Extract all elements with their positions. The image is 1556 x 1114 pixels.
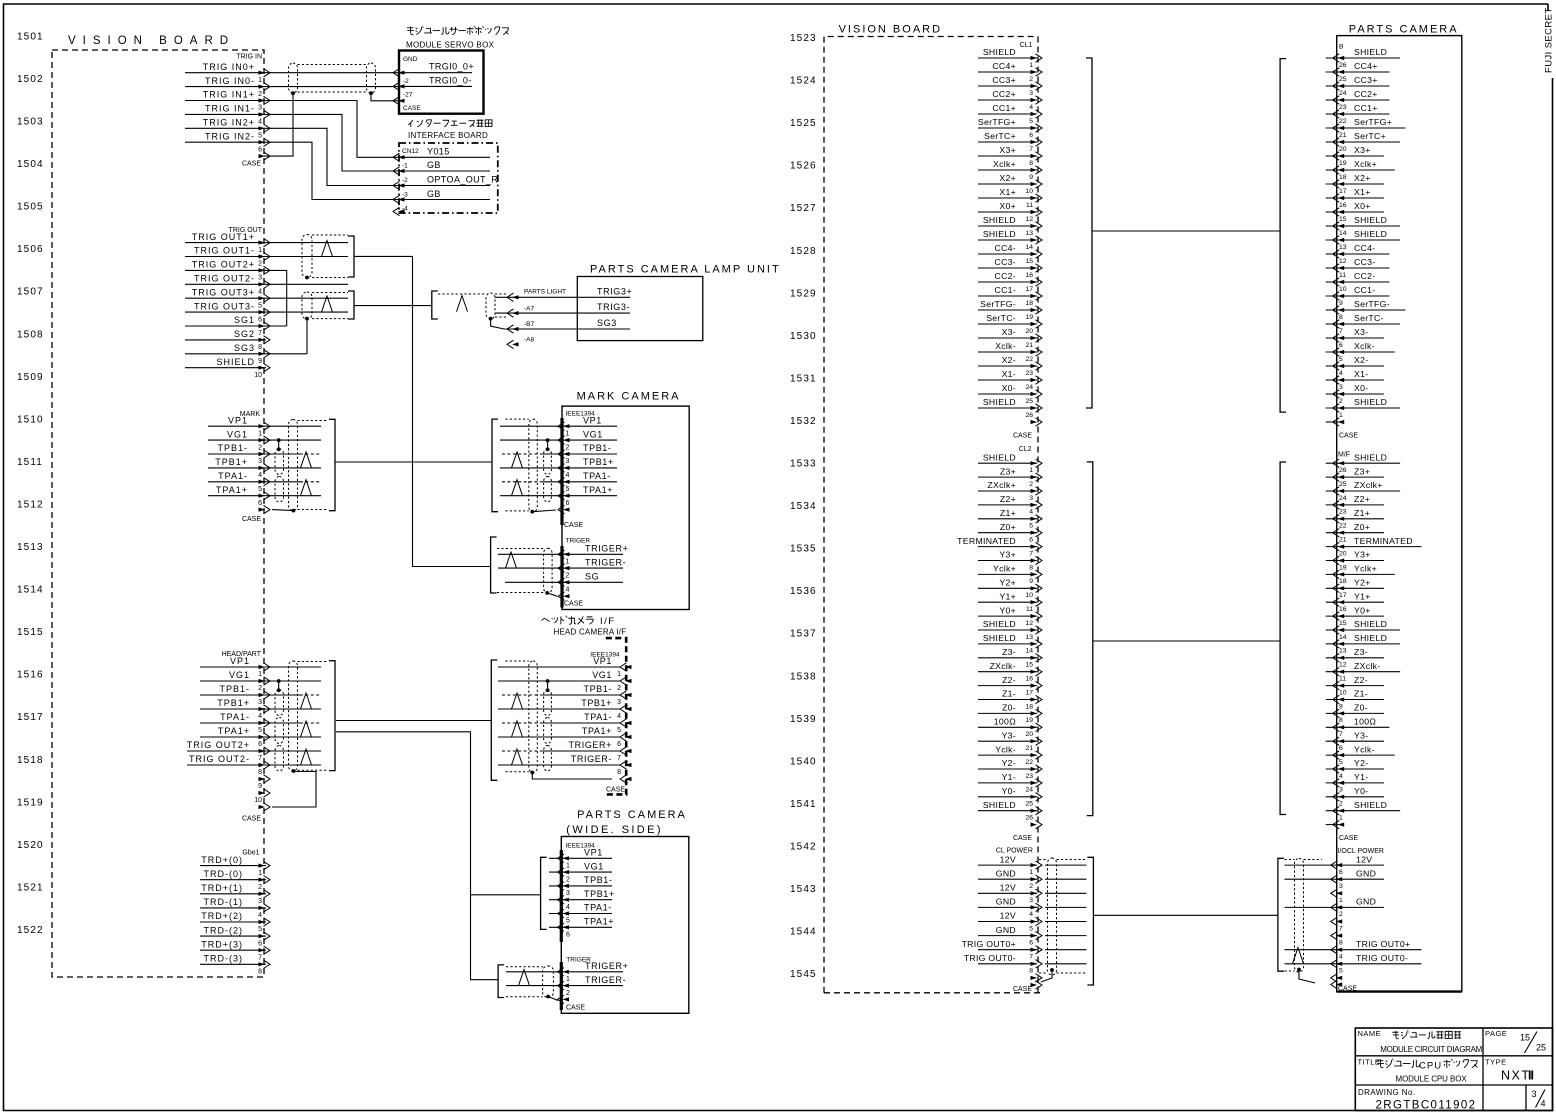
pulse symbol head camera pair (512, 693, 523, 709)
svg-text:CC1-: CC1- (995, 285, 1016, 295)
head camera pin 5 TPA1- (625, 721, 632, 725)
svg-text:23: 23 (1339, 509, 1347, 516)
svg-text:SHIELD: SHIELD (1354, 452, 1387, 462)
interface board pin -3 GB (398, 197, 405, 201)
svg-text:SerTFG-: SerTFG- (980, 299, 1016, 309)
svg-text:VP1: VP1 (584, 848, 603, 858)
wire TRIG IN case to cable shield (264, 93, 293, 156)
svg-text:8: 8 (258, 344, 262, 351)
parts camera wide box outline (561, 837, 689, 1014)
svg-text:SHIELD: SHIELD (983, 47, 1016, 57)
wide camera pin 1 VP1 (563, 856, 570, 860)
wide camera pin 6 TPA1+ (563, 925, 570, 929)
svg-text:13: 13 (1339, 648, 1347, 655)
svg-text:21: 21 (1025, 342, 1033, 349)
svg-text:OPTOA_OUT_R: OPTOA_OUT_R (427, 175, 498, 185)
svg-text:6: 6 (1029, 939, 1033, 946)
svg-text:1510: 1510 (17, 414, 44, 425)
cable capsule TRIG OUT3 pair (302, 292, 312, 319)
svg-text:22: 22 (1339, 523, 1347, 530)
svg-text:4: 4 (258, 289, 262, 296)
svg-text:TRD-(2): TRD-(2) (204, 925, 244, 935)
svg-text:PARTS CAMERA LAMP UNIT: PARTS CAMERA LAMP UNIT (590, 264, 781, 276)
svg-text:9: 9 (1029, 578, 1033, 585)
svg-text:TPB1+: TPB1+ (215, 457, 248, 467)
svg-text:SerTC+: SerTC+ (1354, 131, 1386, 141)
svg-text:CL2: CL2 (1019, 446, 1032, 453)
svg-text:5: 5 (258, 302, 262, 309)
parts camera power pin row 7 TRIG OUT0+ (1285, 949, 1422, 951)
svg-text:CC3-: CC3- (1354, 257, 1375, 267)
svg-text:1519: 1519 (17, 797, 44, 808)
title block outline (1355, 1028, 1552, 1111)
svg-text:TRGI0_0-: TRGI0_0- (429, 75, 472, 85)
svg-text:5: 5 (1029, 118, 1033, 125)
svg-text:TRD-(1): TRD-(1) (204, 897, 244, 907)
cable dashes CL POWER (1039, 859, 1048, 861)
svg-text:2: 2 (1029, 883, 1033, 890)
parts camera M/F pin 1 SHIELD (1326, 810, 1400, 812)
svg-text:Yclk-: Yclk- (995, 744, 1016, 754)
svg-text:1534: 1534 (790, 501, 817, 512)
svg-text:Z3-: Z3- (1354, 647, 1368, 657)
svg-text:-3: -3 (402, 191, 408, 198)
svg-text:100Ω: 100Ω (994, 717, 1016, 727)
svg-text:-27: -27 (403, 92, 413, 99)
svg-text:TRIGER-: TRIGER- (571, 754, 612, 764)
parts camera M/F blank pin 1 (1326, 824, 1339, 826)
head camera Japanese title (541, 618, 549, 621)
module servo box Japanese title (407, 26, 414, 34)
svg-text:1530: 1530 (790, 331, 817, 342)
parts camera M/F pin 21 Z0+ (1326, 532, 1384, 534)
wire CL POWER bundle to parts camera (1093, 914, 1278, 916)
svg-text:12V: 12V (1356, 854, 1372, 864)
parts camera M/F pin 12 Z3- (1326, 657, 1384, 659)
svg-text:1: 1 (258, 247, 262, 254)
svg-text:VG1: VG1 (227, 429, 248, 439)
wide camera connector bar TRIGER (560, 962, 563, 1010)
parts camera M/F pin 3 Y1- (1326, 782, 1384, 784)
svg-text:VISION BOARD: VISION BOARD (68, 35, 235, 47)
vision board (right) dashed outline (824, 37, 1038, 993)
wide camera trigger pin TRIGER- (563, 984, 570, 988)
svg-text:Y2-: Y2- (1354, 758, 1368, 768)
svg-text:CC2+: CC2+ (1354, 89, 1378, 99)
svg-text:7: 7 (258, 330, 262, 337)
svg-text:18: 18 (1025, 703, 1033, 710)
svg-text:1540: 1540 (790, 756, 817, 767)
svg-text:1533: 1533 (790, 459, 817, 470)
parts camera X pin 4 X2- (1326, 365, 1384, 367)
svg-text:PARTS CAMERA: PARTS CAMERA (577, 809, 687, 821)
svg-text:Z0-: Z0- (1354, 703, 1368, 713)
cable capsule MARK outer shield (289, 420, 298, 511)
parts camera M/F pin 8 Z0- (1326, 712, 1384, 714)
wire cable shield to servo box CASE (371, 93, 399, 101)
svg-text:SHIELD: SHIELD (1354, 800, 1387, 810)
svg-text:SerTFG+: SerTFG+ (1354, 117, 1392, 127)
svg-text:1: 1 (1339, 412, 1343, 419)
parts camera X pin 9 CC1- (1326, 295, 1390, 297)
svg-text:12V: 12V (1000, 854, 1016, 864)
svg-text:15: 15 (1339, 620, 1347, 627)
mark camera pin 5 TPA1- (563, 480, 570, 484)
svg-text:7: 7 (1339, 925, 1343, 932)
svg-text:6: 6 (1339, 342, 1343, 349)
svg-text:HEAD CAMERA I/F: HEAD CAMERA I/F (554, 628, 627, 637)
svg-text:1541: 1541 (790, 799, 817, 810)
svg-text:4: 4 (1029, 509, 1033, 516)
svg-text:TRD-(3): TRD-(3) (204, 954, 244, 964)
svg-text:INTERFACE BOARD: INTERFACE BOARD (408, 131, 488, 140)
parts camera X pin 7 SerTC- (1326, 323, 1400, 325)
svg-text:10: 10 (254, 797, 262, 804)
svg-text:GND: GND (1356, 868, 1376, 878)
parts camera X pin 8 SerTFG- (1326, 309, 1406, 311)
svg-text:1545: 1545 (790, 969, 817, 980)
svg-text:7: 7 (258, 755, 262, 762)
pulse symbol parts camera TRIG OUT0 (1293, 948, 1304, 964)
cable inner capsule mark camera TPB (544, 449, 552, 475)
junction dot cable shield right (369, 91, 373, 95)
svg-text:1: 1 (566, 430, 570, 437)
svg-text:7: 7 (1029, 146, 1033, 153)
parts camera power pin row 3 (1336, 891, 1343, 895)
cable bracket parts camera X (1280, 59, 1286, 413)
svg-text:TRIGER+: TRIGER+ (585, 961, 628, 971)
svg-text:GND: GND (996, 897, 1016, 907)
svg-text:2RGTBC011902: 2RGTBC011902 (1376, 1100, 1477, 1112)
pulse symbol mark camera TPA1 (512, 480, 523, 496)
svg-text:3: 3 (258, 105, 262, 112)
pulse symbol HEAD/PART pair (301, 749, 312, 765)
svg-text:17: 17 (1025, 689, 1033, 696)
mark camera box outline (562, 406, 689, 609)
svg-text:Z2-: Z2- (1354, 675, 1368, 685)
svg-text:1502: 1502 (17, 74, 44, 85)
svg-text:1505: 1505 (17, 202, 44, 213)
parts camera M/F pin 9 Z1- (1326, 699, 1384, 701)
svg-text:3: 3 (617, 699, 621, 706)
wire HEAD/PART case to cable shield (272, 772, 316, 808)
svg-text:SerTC+: SerTC+ (984, 131, 1016, 141)
svg-text:7: 7 (617, 755, 621, 762)
svg-text:-A7: -A7 (524, 305, 535, 312)
head camera pin 7 TRIGER+ (625, 749, 632, 753)
parts camera M/F pin 19 Y3+ (1326, 560, 1384, 562)
interface board pin CN12 Y015 (398, 155, 405, 159)
cable bracket CL2 (1087, 462, 1093, 816)
connector CL2 pin 26 blank (1031, 823, 1038, 827)
svg-text:14: 14 (1339, 634, 1347, 641)
svg-text:3: 3 (258, 898, 262, 905)
svg-text:GB: GB (427, 189, 441, 199)
svg-text:12: 12 (1025, 620, 1033, 627)
svg-text:24: 24 (1025, 787, 1033, 794)
svg-text:II: II (1528, 1069, 1533, 1083)
svg-text:1509: 1509 (17, 372, 44, 383)
svg-text:SHIELD: SHIELD (1354, 229, 1387, 239)
svg-text:16: 16 (1025, 272, 1033, 279)
cable dashes parts light (438, 293, 486, 295)
svg-text:-B7: -B7 (524, 321, 535, 328)
svg-text:25: 25 (1536, 1043, 1546, 1053)
svg-text:5: 5 (258, 727, 262, 734)
svg-text:Y2+: Y2+ (1354, 578, 1371, 588)
svg-text:10: 10 (1339, 689, 1347, 696)
svg-text:CASE: CASE (403, 105, 421, 112)
svg-text:14: 14 (1025, 244, 1033, 251)
svg-text:5: 5 (617, 727, 621, 734)
svg-text:1: 1 (258, 430, 262, 437)
svg-text:TPA1+: TPA1+ (582, 726, 612, 736)
svg-text:1526: 1526 (790, 161, 817, 172)
svg-text:1: 1 (566, 559, 570, 566)
svg-text:23: 23 (1025, 370, 1033, 377)
svg-text:8: 8 (1339, 314, 1343, 321)
parts camera box outline (1337, 36, 1462, 992)
wide camera connector bar IEEE1394 (560, 850, 563, 942)
svg-text:NAME: NAME (1358, 1029, 1382, 1038)
svg-text:VG1: VG1 (583, 429, 603, 439)
svg-text:21: 21 (1025, 745, 1033, 752)
svg-text:1: 1 (1029, 869, 1033, 876)
svg-text:Z0+: Z0+ (1354, 522, 1370, 532)
svg-text:CASE: CASE (1013, 986, 1032, 993)
svg-text:TPA1+: TPA1+ (218, 726, 250, 736)
svg-text:CC1-: CC1- (1354, 285, 1375, 295)
svg-text:TRIG IN0-: TRIG IN0- (205, 76, 255, 86)
parts camera M/F pin 4 Y2- (1326, 768, 1384, 770)
svg-text:12: 12 (1339, 662, 1347, 669)
parts camera X pin 24 CC3+ (1326, 85, 1390, 87)
parts camera power pin row 8 TRIG OUT0- (1285, 963, 1422, 965)
wire mark trigger shield to CASE (547, 593, 557, 596)
cable inner capsule HEAD/PART TRIG OUT2 (275, 746, 284, 772)
svg-text:GND: GND (996, 868, 1016, 878)
parts camera lamp unit box (577, 277, 703, 341)
svg-text:CC1+: CC1+ (1354, 103, 1378, 113)
servo box pin 27 / CASE (398, 99, 405, 103)
svg-text:TRIG OUT0+: TRIG OUT0+ (1356, 939, 1410, 949)
svg-text:CC3+: CC3+ (992, 75, 1016, 85)
svg-text:Y0+: Y0+ (999, 605, 1016, 615)
svg-text:17: 17 (1339, 592, 1347, 599)
svg-text:SHIELD: SHIELD (983, 215, 1016, 225)
svg-text:TPA1-: TPA1- (583, 471, 611, 481)
svg-text:SG2: SG2 (234, 329, 255, 339)
connector TRIG IN CASE pin (259, 154, 266, 158)
parts camera M/F pin 14 SHIELD (1326, 629, 1400, 631)
mark camera pin 1 VP1 (563, 424, 570, 428)
connector CL POWER CASE pin (1031, 983, 1038, 987)
connector HEAD/PART pin 10 (259, 791, 266, 795)
svg-text:SHIELD: SHIELD (216, 357, 255, 367)
svg-text:X1-: X1- (1002, 369, 1016, 379)
svg-text:1: 1 (1339, 815, 1343, 822)
svg-text:Z1+: Z1+ (1354, 508, 1370, 518)
svg-text:4: 4 (566, 587, 570, 594)
svg-text:22: 22 (1025, 356, 1033, 363)
junction dot head camera shield (530, 771, 534, 775)
cable inner capsule MARK TPA pair (275, 477, 284, 503)
svg-text:CASE: CASE (566, 1005, 585, 1012)
head camera pin 4 TPB1+ (625, 707, 632, 711)
svg-text:9: 9 (258, 358, 262, 365)
wire MARK bundle to mark camera (335, 461, 492, 463)
svg-text:SG1: SG1 (234, 315, 255, 325)
svg-text:X3-: X3- (1002, 327, 1016, 337)
wire head camera shield to CASE (532, 773, 612, 780)
svg-text:TRD+(3): TRD+(3) (201, 939, 243, 949)
svg-text:Y3-: Y3- (1002, 730, 1016, 740)
svg-text:1537: 1537 (790, 629, 817, 640)
parts camera M/F pin 5 Yclk- (1326, 754, 1395, 756)
svg-text:TRIG OUT1-: TRIG OUT1- (194, 246, 255, 256)
wire parts camera power shield to case (1299, 970, 1315, 984)
wire head/part bundle to head camera (336, 720, 491, 722)
svg-text:12V: 12V (1000, 883, 1016, 893)
svg-text:MODULE SERVO BOX: MODULE SERVO BOX (406, 41, 495, 50)
svg-text:Xclk-: Xclk- (1354, 341, 1375, 351)
svg-text:22: 22 (1339, 118, 1347, 125)
svg-text:1: 1 (258, 870, 262, 877)
mark camera pin 6 TPA1+ (563, 494, 570, 498)
svg-text:SerTC-: SerTC- (1354, 313, 1384, 323)
svg-text:TRIG IN0+: TRIG IN0+ (203, 62, 255, 72)
parts camera power pin row 6 (1336, 934, 1343, 938)
svg-text:7: 7 (1029, 954, 1033, 961)
svg-text:6: 6 (1339, 745, 1343, 752)
pulse symbol mark camera TPB1 (512, 452, 523, 468)
svg-text:5: 5 (1339, 759, 1343, 766)
head camera pin 1 VP1 (625, 665, 632, 669)
parts camera X pin 11 CC3- (1326, 267, 1390, 269)
svg-text:Z1-: Z1- (1002, 689, 1016, 699)
module servo box outline (399, 51, 484, 114)
svg-text:18: 18 (1339, 174, 1347, 181)
svg-text:TPB1+: TPB1+ (583, 457, 614, 467)
svg-text:TYPE: TYPE (1485, 1057, 1507, 1066)
wide camera trigger blank pin (563, 997, 570, 1001)
svg-text:1516: 1516 (17, 670, 44, 681)
svg-text:10: 10 (1025, 592, 1033, 599)
svg-text:TRIGER-: TRIGER- (585, 975, 626, 985)
cable capsule wide trigger (543, 966, 554, 998)
title block Japanese title (1377, 1059, 1384, 1068)
svg-text:2: 2 (258, 444, 262, 451)
svg-text:TRD+(1): TRD+(1) (201, 883, 243, 893)
svg-text:VG1: VG1 (584, 861, 604, 871)
mark camera trigger pin TRIGER- (563, 566, 570, 570)
svg-text:5: 5 (1029, 523, 1033, 530)
parts camera power pin row 4 GND (1285, 906, 1385, 908)
svg-text:1: 1 (1029, 467, 1033, 474)
svg-text:4: 4 (1029, 104, 1033, 111)
pulse symbol TRIG OUT1 (322, 241, 333, 257)
svg-text:Gbe1: Gbe1 (242, 850, 259, 857)
svg-text:7: 7 (1339, 328, 1343, 335)
junction dot CL POWER shield (1050, 968, 1054, 972)
svg-text:TRIG IN: TRIG IN (236, 54, 262, 61)
svg-text:3: 3 (1339, 384, 1343, 391)
svg-text:X3+: X3+ (1354, 145, 1371, 155)
svg-text:15: 15 (1520, 1033, 1530, 1043)
cable capsule head camera outer (529, 661, 538, 773)
svg-text:7: 7 (258, 954, 262, 961)
svg-text:1: 1 (566, 863, 570, 870)
title block Japanese name (1392, 1031, 1399, 1039)
svg-text:2: 2 (566, 990, 570, 997)
svg-text:TPA1-: TPA1- (584, 712, 612, 722)
svg-text:X2-: X2- (1354, 355, 1368, 365)
cable shield dashed runs (298, 64, 367, 66)
pulse symbol mark trigger (506, 552, 517, 568)
cable bracket TRIG OUT1 pair (348, 236, 354, 277)
svg-text:TRD+(0): TRD+(0) (201, 855, 243, 865)
title block row dividers (1355, 1055, 1552, 1057)
svg-text:Y0-: Y0- (1354, 786, 1368, 796)
svg-text:1506: 1506 (17, 244, 44, 255)
svg-text:VP1: VP1 (230, 656, 250, 666)
cable capsule parts light (486, 293, 495, 319)
svg-text:SHIELD: SHIELD (1354, 619, 1387, 629)
svg-text:TRIG IN2+: TRIG IN2+ (203, 118, 255, 128)
svg-text:Z2+: Z2+ (1354, 494, 1370, 504)
wire TRIG IN1+ to CN12 Y015 (266, 101, 399, 158)
svg-text:Z1+: Z1+ (1000, 508, 1016, 518)
svg-text:13: 13 (1339, 244, 1347, 251)
parts camera X pin 1 SHIELD (1326, 407, 1400, 409)
cable inner capsule head camera TRIGER (544, 746, 552, 772)
svg-text:5: 5 (566, 486, 570, 493)
parts camera power pin row 1 12V (1285, 864, 1385, 866)
svg-text:I/F: I/F (600, 616, 616, 627)
svg-text:X1+: X1+ (1354, 187, 1371, 197)
svg-text:2: 2 (1029, 481, 1033, 488)
svg-text:Y3-: Y3- (1354, 730, 1368, 740)
parts camera X pin 5 Xclk- (1326, 351, 1395, 353)
svg-text:CASE: CASE (564, 601, 583, 608)
parts camera X pin 13 SHIELD (1326, 239, 1400, 241)
svg-text:17: 17 (1025, 286, 1033, 293)
svg-text:MODULE CIRCUIT DIAGRAM: MODULE CIRCUIT DIAGRAM (1380, 1045, 1482, 1054)
svg-text:2: 2 (566, 572, 570, 579)
svg-text:Z0+: Z0+ (1000, 522, 1016, 532)
svg-text:VG1: VG1 (229, 670, 250, 680)
svg-text:SHIELD: SHIELD (983, 229, 1016, 239)
svg-text:5: 5 (258, 486, 262, 493)
svg-text:1538: 1538 (790, 671, 817, 682)
parts camera M/F pin 26 SHIELD (1326, 462, 1400, 464)
svg-text:1529: 1529 (790, 288, 817, 299)
wire mark camera shield to CASE (532, 510, 556, 512)
svg-text:TPB1-: TPB1- (219, 684, 250, 694)
svg-text:TRIGER+: TRIGER+ (585, 544, 628, 554)
svg-text:5: 5 (566, 918, 570, 925)
svg-text:1518: 1518 (17, 755, 44, 766)
svg-text:TRIG OUT0-: TRIG OUT0- (1356, 953, 1408, 963)
svg-text:12: 12 (1025, 216, 1033, 223)
mark camera trigger pin TRIGER+ (563, 552, 570, 556)
wire branch to wide camera 1394 (471, 894, 541, 896)
svg-text:TPA1+: TPA1+ (216, 485, 248, 495)
svg-text:23: 23 (1339, 104, 1347, 111)
pulse symbol MARK TPB1 (301, 452, 312, 468)
svg-text:16: 16 (1339, 202, 1347, 209)
cable dashes TRIG OUT1 (312, 234, 348, 236)
